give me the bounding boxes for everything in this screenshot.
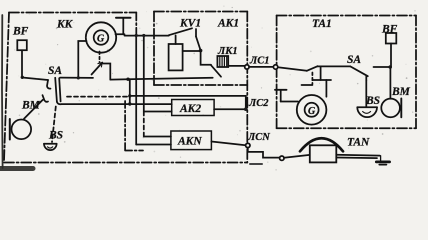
wire AKN output — [211, 142, 245, 146]
junction LS2 — [244, 107, 248, 111]
BF (left) symbol square — [17, 40, 27, 50]
cord end down — [380, 156, 382, 161]
KV1 switch blade — [169, 28, 192, 35]
wire W2 to AK2 — [62, 103, 172, 105]
wire down from junction — [201, 51, 211, 65]
wire to BS (right) — [365, 80, 367, 106]
inner dash-dot group boundary near AK units — [124, 101, 126, 151]
jack LK1 body — [217, 56, 228, 67]
ground hatch — [376, 161, 389, 164]
svg-text:AKN: AKN — [177, 136, 202, 148]
vertical V1 — [129, 79, 131, 104]
wire to TAN set — [284, 155, 310, 158]
SA pole2 blade — [350, 66, 368, 76]
junction BF/BM — [388, 65, 392, 69]
SA pole2 contact tick — [365, 76, 367, 80]
wire W1 extension under jack — [110, 78, 212, 80]
jack LK1 hatch — [220, 56, 227, 66]
svg-text:BS: BS — [48, 130, 63, 142]
svg-text:ЛК1: ЛК1 — [217, 46, 238, 57]
bracket bar — [312, 79, 331, 81]
svg-text:G: G — [97, 34, 105, 45]
main bus — [143, 36, 145, 112]
wire BM to SA — [24, 100, 43, 119]
brush stem — [122, 18, 124, 33]
relay coil KV1 — [169, 44, 183, 70]
svg-text:ЛС1: ЛС1 — [249, 56, 269, 67]
BS (left) earpiece — [44, 143, 57, 145]
wire resume to BF — [374, 66, 391, 68]
wire LS1 line — [249, 66, 273, 68]
wire brush to KV1 pivot — [125, 35, 169, 37]
bracket drop to machine — [325, 80, 327, 97]
arrow bar and drop — [103, 64, 110, 80]
terminal LSN — [246, 143, 250, 147]
AKN unit box — [171, 131, 212, 150]
junction dot A/V1 — [128, 94, 131, 97]
AK1 box (dash-dot) — [154, 12, 247, 86]
generator G (left) outer circle — [86, 22, 116, 52]
SA pole1 blade — [307, 66, 318, 71]
scan artifact small dash bottom middle — [250, 163, 262, 165]
wire pole1 to pole2 — [318, 65, 351, 67]
junction dot W2/V1 — [128, 102, 131, 105]
connector circle — [280, 156, 284, 160]
wire coil to jack — [183, 50, 201, 52]
svg-text:BS: BS — [365, 95, 380, 107]
TA1 box (dash-dot) — [277, 16, 416, 129]
svg-text:TAN: TAN — [347, 136, 370, 148]
wire SA to BS (left) — [52, 107, 56, 143]
mechanical dash link down — [311, 73, 313, 85]
terminal TA1 input — [273, 65, 277, 69]
KK box right edge (dash-dot) — [135, 13, 137, 36]
telephone body — [310, 145, 337, 162]
wire G left lead — [78, 41, 86, 78]
SA mechanical double link — [55, 78, 57, 102]
outer left station box (dash-dot) — [4, 12, 247, 163]
svg-text:BM: BM — [21, 100, 41, 112]
handset dome — [300, 138, 343, 151]
mechanical dash link from G — [99, 52, 101, 63]
junction dot KV1/coil wire — [199, 49, 203, 53]
BF stem — [390, 44, 392, 68]
wire AK2 output — [214, 108, 246, 110]
wire W1 to bus — [60, 77, 93, 79]
SA link bottom hook — [57, 102, 62, 104]
scan artifact bottom-left blob — [0, 166, 33, 171]
G machine (right) outer circle — [297, 95, 327, 125]
wire A to LS2 — [130, 95, 246, 97]
svg-text:KK: KK — [56, 19, 74, 31]
KV1 contact tick — [195, 29, 197, 37]
svg-text:ЛСN: ЛСN — [247, 132, 270, 143]
jack lever — [211, 65, 221, 77]
switch blade arrow to G — [92, 63, 103, 75]
dashed pole link — [67, 96, 129, 98]
junction dot W1/V1 — [126, 78, 129, 81]
wire LSN to TAN — [248, 148, 280, 158]
AK2 unit box — [172, 100, 214, 116]
BM (left) bar — [9, 119, 11, 140]
brush tick — [302, 84, 313, 86]
svg-text:TA1: TA1 — [312, 18, 332, 30]
wire jack to LS1 — [228, 65, 244, 67]
SA lower contact tick — [43, 95, 49, 102]
T terminal symbol — [275, 89, 287, 91]
BM (right) bar — [400, 99, 402, 118]
svg-text:G: G — [308, 106, 316, 117]
BF stem wire — [21, 50, 23, 77]
svg-text:AK1: AK1 — [217, 18, 239, 30]
svg-text:KV1: KV1 — [179, 18, 201, 30]
svg-text:BF: BF — [12, 26, 29, 38]
KV1 contact wire down — [196, 37, 201, 51]
wire terminal to SA pole1 — [278, 67, 307, 71]
junction dot W1/G-lead — [77, 76, 80, 79]
svg-text:SA: SA — [48, 65, 62, 77]
brush contact tick — [116, 33, 125, 35]
scan artifact left edge — [1, 15, 4, 168]
bus 2 (to AKN lower) — [135, 36, 137, 145]
wire to BM — [389, 67, 391, 99]
wire bus to AK2 lower — [144, 111, 172, 113]
svg-text:BM: BM — [391, 86, 411, 98]
svg-text:SA: SA — [347, 54, 361, 66]
BM (left) microphone circle — [11, 120, 31, 140]
terminal LS1 — [245, 65, 249, 69]
cord line 1 — [336, 154, 380, 157]
coil top stub — [175, 35, 177, 44]
T wire to machine — [281, 101, 298, 103]
SA upper fixed contact hook — [47, 80, 51, 89]
BS (right) earpiece — [357, 106, 377, 108]
wire BF junction to SA — [22, 78, 48, 81]
svg-text:ЛС2: ЛС2 — [248, 98, 269, 109]
junction BF/SA — [21, 76, 24, 79]
cord line 2 — [336, 157, 377, 160]
wire contact down to machine — [320, 67, 322, 80]
generator G (left) inner circle — [94, 30, 109, 45]
wire A corner to LS2 node — [245, 96, 247, 109]
BF (right) symbol square — [386, 33, 397, 44]
G machine (right) inner circle — [305, 103, 319, 117]
BM (right) microphone circle — [381, 99, 400, 118]
svg-text:BF: BF — [381, 24, 398, 36]
svg-text:AK2: AK2 — [179, 103, 201, 115]
brush bar of G — [116, 17, 131, 19]
